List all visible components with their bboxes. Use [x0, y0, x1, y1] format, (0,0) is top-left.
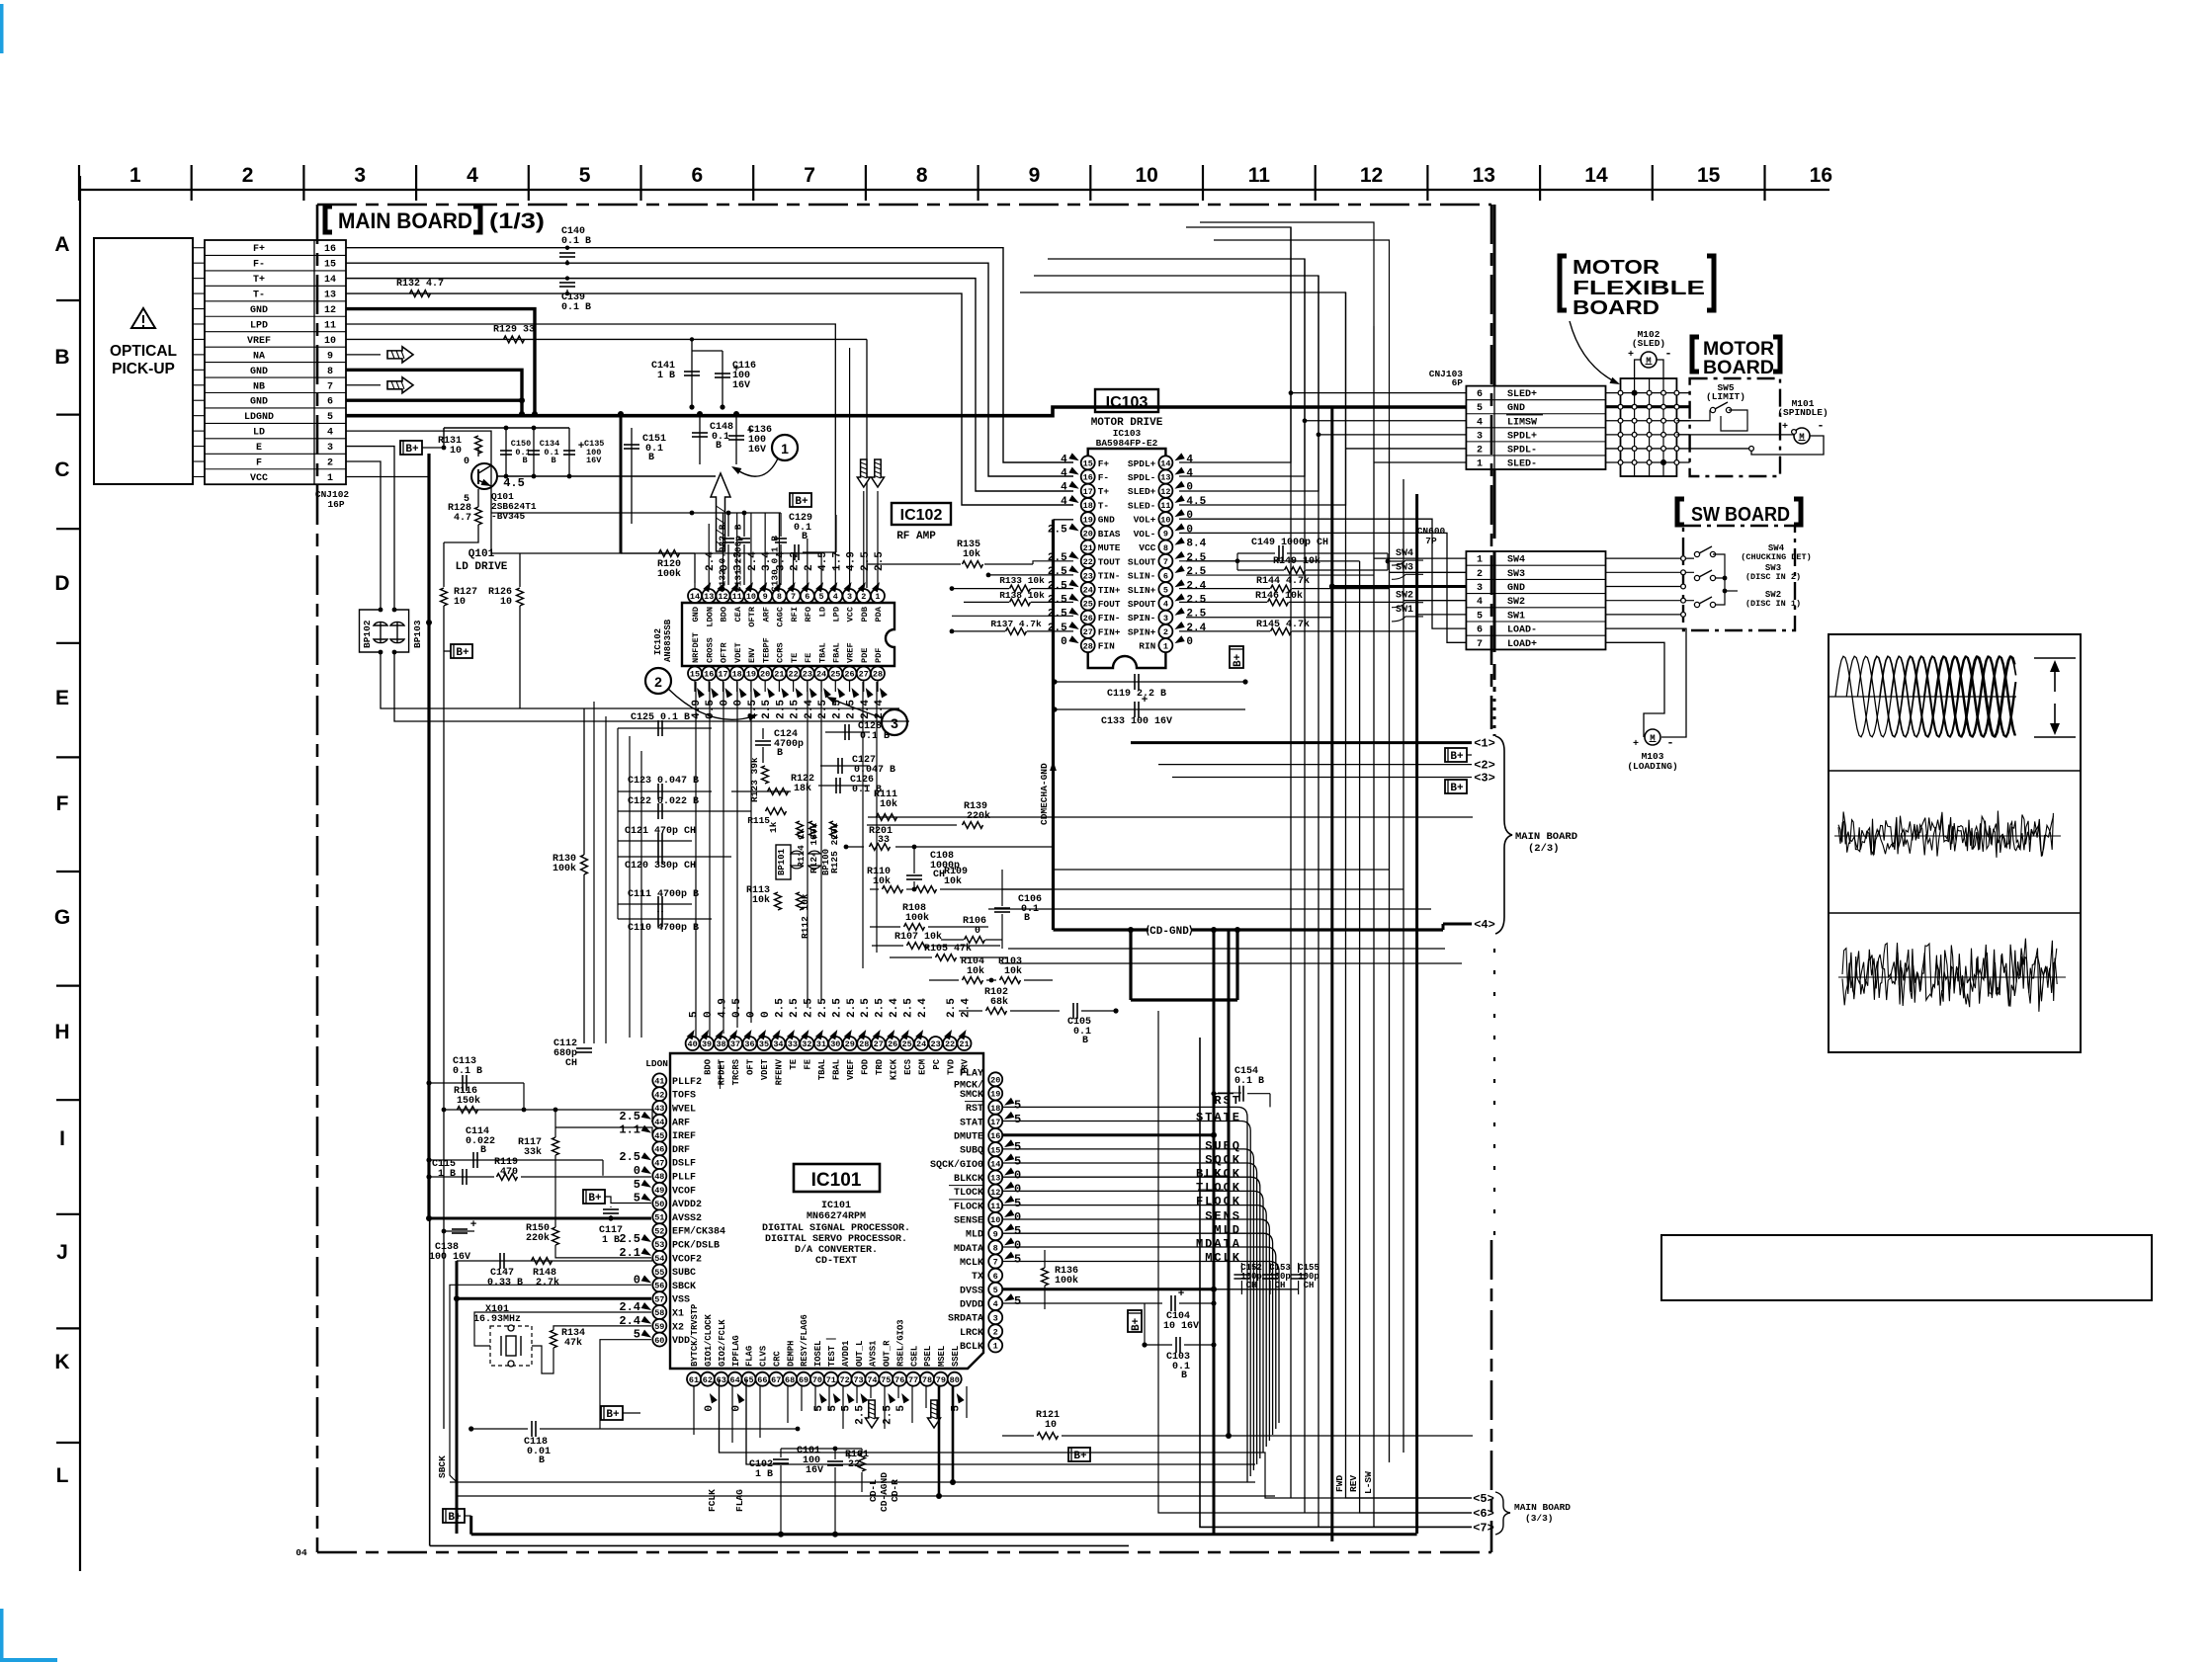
IC101 bottom pins 61..80 [687, 1372, 701, 1386]
svg-text:B: B [648, 453, 654, 463]
svg-text:IOSEL: IOSEL [813, 1341, 823, 1367]
svg-text:65: 65 [743, 1375, 753, 1385]
svg-text:1: 1 [781, 441, 789, 457]
svg-text:FCLK: FCLK [707, 1489, 718, 1512]
svg-text:STATE: STATE [1196, 1111, 1241, 1124]
switch SW2 DISC IN 1 [1694, 602, 1699, 607]
svg-text:10k: 10k [873, 875, 891, 887]
svg-text:IREF: IREF [672, 1131, 696, 1142]
svg-text:2.5: 2.5 [775, 700, 787, 719]
svg-text:A: A [54, 233, 69, 256]
svg-text:20: 20 [760, 670, 770, 680]
svg-text:RIN: RIN [1139, 641, 1155, 652]
svg-text:8: 8 [916, 164, 928, 187]
IC101 right pins 20..1 [988, 1072, 1002, 1086]
svg-text:BLKCK: BLKCK [1196, 1167, 1241, 1181]
svg-text:NRFDET: NRFDET [691, 632, 701, 663]
svg-text:60: 60 [654, 1336, 664, 1346]
svg-text:9: 9 [763, 592, 768, 602]
svg-text:0: 0 [1014, 1168, 1021, 1182]
connector CNJ102 16P [205, 240, 346, 484]
svg-text:IPFLAG: IPFLAG [731, 1335, 741, 1367]
svg-text:5: 5 [819, 592, 824, 602]
wire top rail to IC102 caps [491, 512, 781, 514]
svg-text:BP101: BP101 [777, 848, 787, 875]
svg-text:B+: B+ [456, 647, 469, 659]
bold DVSS wire [1002, 1288, 1214, 1290]
capacitor C125 0.1 B [618, 727, 712, 729]
board edge dashed through CN600 [1493, 551, 1496, 649]
svg-text:GND: GND [1507, 403, 1525, 414]
svg-text:TRD: TRD [875, 1059, 885, 1075]
frame top header line [79, 189, 1829, 191]
noise waveform bottom [1842, 939, 2057, 1012]
svg-text:2: 2 [242, 164, 254, 187]
svg-text:GND: GND [250, 397, 268, 408]
svg-text:10k: 10k [1004, 965, 1022, 977]
resistor R132 4.7 [410, 291, 431, 297]
svg-text:LOAD+: LOAD+ [1507, 639, 1537, 650]
svg-text:58: 58 [654, 1308, 664, 1318]
wire VREF with resistor R129 33 [346, 338, 867, 340]
svg-text:3: 3 [327, 443, 333, 454]
wire F- to IC103 pin16 [346, 263, 1073, 476]
svg-text:R145 4.7k: R145 4.7k [1256, 619, 1310, 630]
horizontal feeds top right [1179, 227, 1291, 462]
bold DMUTE wire pin16 [1002, 1133, 1214, 1136]
wire to ARF pin44 [651, 1110, 652, 1122]
svg-text:04: 04 [296, 1547, 307, 1558]
svg-text:2.5: 2.5 [1048, 524, 1067, 536]
svg-text:LIMSW: LIMSW [1507, 417, 1537, 428]
svg-text:6: 6 [1477, 625, 1483, 636]
REV wire [1360, 1482, 1472, 1513]
svg-text:B+: B+ [588, 1193, 602, 1205]
svg-text:(SLED): (SLED) [1632, 338, 1665, 349]
wire E [346, 447, 394, 610]
svg-text:17: 17 [1083, 487, 1093, 497]
svg-text:12: 12 [1360, 164, 1383, 187]
svg-text:1 B: 1 B [657, 371, 675, 381]
svg-text:F: F [256, 458, 262, 469]
svg-text:0.1 B: 0.1 B [1234, 1076, 1264, 1087]
CD-GND bold net label [1131, 928, 1149, 931]
vertical wires from IC102 top pins up to rails [708, 524, 710, 583]
svg-text:1: 1 [1163, 641, 1168, 651]
svg-text:E: E [55, 687, 69, 709]
svg-text:2.5: 2.5 [1048, 609, 1067, 621]
svg-text:1: 1 [1477, 555, 1483, 566]
svg-text:WVEL: WVEL [672, 1105, 696, 1116]
svg-text:10k: 10k [880, 798, 897, 810]
svg-text:13: 13 [704, 592, 714, 602]
svg-text:8: 8 [993, 1244, 998, 1254]
svg-text:5: 5 [1014, 1099, 1021, 1113]
svg-text:B: B [802, 532, 808, 542]
capacitor C105 0.1 B [1072, 1003, 1074, 1019]
svg-text:F+: F+ [253, 244, 265, 255]
svg-text:D/A CONVERTER.: D/A CONVERTER. [795, 1244, 878, 1256]
capacitor C148 0.1 B [699, 414, 701, 464]
svg-text:2.5: 2.5 [874, 551, 886, 571]
svg-text:C121 470p CH: C121 470p CH [625, 826, 696, 837]
svg-text:2.4: 2.4 [1186, 623, 1206, 634]
svg-text:-: - [1664, 347, 1671, 361]
svg-text:GND: GND [250, 367, 268, 377]
resistor R136 100k [1042, 1268, 1049, 1286]
blue registration mark bottom-left [0, 1609, 4, 1662]
B+ supply label [400, 441, 422, 455]
svg-text:13: 13 [990, 1174, 1000, 1184]
svg-text:GIO1/CLOCK: GIO1/CLOCK [704, 1313, 714, 1367]
svg-text:19: 19 [990, 1090, 1000, 1100]
svg-text:2.4: 2.4 [917, 998, 929, 1018]
svg-text:<2>: <2> [1474, 759, 1495, 773]
svg-text:B+: B+ [606, 1409, 620, 1421]
svg-text:19: 19 [1083, 515, 1093, 525]
svg-text:<5>: <5> [1473, 1492, 1494, 1506]
svg-text:12: 12 [990, 1188, 1000, 1198]
svg-text:2.5: 2.5 [803, 998, 814, 1018]
svg-text:SBCK: SBCK [672, 1282, 696, 1292]
svg-text:21: 21 [774, 670, 784, 680]
bold VSS wire pin57 [457, 1297, 651, 1300]
svg-text:TEST: TEST [827, 1345, 837, 1367]
svg-text:+: + [1633, 739, 1639, 750]
svg-text:(DISC IN 1): (DISC IN 1) [1745, 599, 1801, 609]
svg-text:DVDD: DVDD [960, 1300, 983, 1311]
svg-text:2.5: 2.5 [789, 998, 801, 1018]
IC101 top pins 40..21 [686, 1037, 700, 1050]
CDMECHA-GND bold wire [1052, 520, 1055, 930]
svg-text:OUT_R: OUT_R [883, 1340, 893, 1367]
svg-text:FE: FE [804, 653, 813, 663]
svg-text:100k: 100k [657, 568, 681, 580]
bold vertical from CD-GND down [1129, 930, 1132, 1000]
svg-text:2.5: 2.5 [860, 551, 872, 571]
svg-text:14: 14 [990, 1160, 1000, 1170]
svg-text:SLED-: SLED- [1507, 458, 1537, 469]
svg-text:4.5: 4.5 [817, 551, 829, 571]
wires to CN600 rows from bus [1374, 557, 1466, 559]
svg-text:LDON: LDON [705, 607, 715, 627]
svg-text:45: 45 [654, 1131, 664, 1141]
svg-text:14: 14 [324, 275, 336, 286]
svg-text:0: 0 [703, 1011, 715, 1018]
svg-text:SPIN-: SPIN- [1128, 613, 1156, 623]
svg-text:+: + [1628, 350, 1634, 361]
svg-text:15: 15 [690, 670, 700, 680]
svg-text:SQCK/GIO0: SQCK/GIO0 [930, 1159, 983, 1171]
svg-text:2.5: 2.5 [855, 1405, 867, 1425]
svg-text:5: 5 [327, 412, 333, 423]
svg-text:34: 34 [773, 1039, 783, 1049]
svg-text:<3>: <3> [1474, 772, 1495, 786]
svg-text:150k: 150k [457, 1095, 480, 1107]
svg-text:2.5: 2.5 [882, 1405, 893, 1425]
svg-text:VREF: VREF [846, 1059, 856, 1080]
B+ box 2 [1445, 780, 1467, 793]
svg-text:VDD: VDD [672, 1336, 690, 1347]
svg-text:2.5: 2.5 [1186, 566, 1206, 578]
wire LD [346, 431, 821, 553]
wire FIN- left [952, 615, 1073, 617]
svg-text:46: 46 [654, 1145, 664, 1155]
svg-text:3: 3 [891, 715, 898, 731]
svg-text:10: 10 [746, 592, 756, 602]
svg-text:(2/3): (2/3) [1528, 843, 1560, 855]
blue registration mark top-left [0, 4, 4, 53]
wire LPD [346, 324, 835, 515]
svg-text:FWD: FWD [1334, 1475, 1345, 1492]
svg-text:72: 72 [840, 1375, 850, 1385]
svg-text:2.5: 2.5 [846, 998, 858, 1018]
svg-text:0: 0 [704, 1405, 716, 1412]
wire E to IC102 area [394, 652, 909, 721]
SW board wiring [1606, 557, 1695, 559]
svg-text:22: 22 [789, 670, 799, 680]
svg-text:LD: LD [253, 428, 265, 439]
svg-text:B+: B+ [1233, 653, 1244, 667]
svg-text:DRF: DRF [672, 1145, 690, 1156]
svg-text:MAIN BOARD: MAIN BOARD [1514, 1502, 1571, 1513]
svg-text:OUT_L: OUT_L [855, 1341, 865, 1367]
svg-text:DIGITAL SIGNAL PROCESSOR.: DIGITAL SIGNAL PROCESSOR. [762, 1223, 910, 1234]
svg-text:23: 23 [803, 670, 812, 680]
svg-text:MUTE: MUTE [1098, 542, 1121, 553]
svg-text:CSEL: CSEL [909, 1346, 919, 1367]
svg-text:0: 0 [1061, 636, 1067, 648]
svg-text:L-SW: L-SW [1363, 1471, 1374, 1494]
svg-text:R105 47k: R105 47k [924, 943, 972, 955]
svg-text:10: 10 [324, 336, 336, 347]
svg-text:MAIN BOARD: MAIN BOARD [1515, 831, 1577, 843]
svg-text:F: F [56, 792, 69, 815]
svg-text:BA5984FP-E2: BA5984FP-E2 [1096, 438, 1158, 449]
wire GND pin8 bold [346, 370, 522, 414]
op-amp IC102 AN8835SB RF AMP body [682, 603, 894, 666]
svg-text:1: 1 [129, 164, 141, 187]
svg-text:E: E [256, 443, 262, 454]
svg-text:RFDET: RFDET [718, 1058, 727, 1085]
svg-text:7P: 7P [1425, 536, 1437, 546]
capacitor C123 0.047 B [618, 790, 712, 792]
svg-text:4: 4 [1477, 417, 1483, 428]
svg-text:SPDL-: SPDL- [1128, 472, 1156, 483]
svg-text:B+: B+ [1131, 1317, 1143, 1331]
svg-text:2.4: 2.4 [747, 551, 759, 571]
svg-text:B: B [551, 456, 555, 465]
svg-text:2: 2 [993, 1328, 998, 1338]
svg-text:2.5: 2.5 [761, 700, 773, 719]
svg-text:SPOUT: SPOUT [1128, 599, 1156, 610]
B+ box terminal row [1445, 748, 1467, 762]
svg-text:19: 19 [746, 670, 756, 680]
svg-text:VCC: VCC [846, 607, 856, 622]
svg-text:3: 3 [993, 1313, 998, 1323]
wire NB with block arrow [346, 384, 381, 386]
capacitor C130 0.1 B vertical label [780, 513, 782, 537]
overline RST STATE TLOCK FLOCK [1218, 1092, 1241, 1094]
svg-text:16: 16 [324, 244, 336, 255]
svg-text:<7>: <7> [1473, 1521, 1494, 1535]
svg-text:26: 26 [888, 1039, 897, 1049]
capacitor C103 0.1 B [1145, 1344, 1172, 1346]
svg-text:2.5: 2.5 [946, 998, 958, 1018]
svg-text:53: 53 [654, 1240, 664, 1250]
capacitor C138 100 16V [444, 1230, 474, 1232]
svg-text:1: 1 [993, 1342, 998, 1352]
svg-text:B: B [480, 1145, 486, 1156]
svg-text:28: 28 [859, 1039, 869, 1049]
svg-text:B: B [716, 441, 722, 452]
svg-text:B+: B+ [405, 444, 419, 456]
svg-text:BDO: BDO [703, 1059, 713, 1075]
svg-text:PLAY: PLAY [960, 1068, 983, 1079]
svg-text:VSS: VSS [672, 1295, 690, 1306]
wires to CNJ103 rows from bus [1291, 392, 1466, 394]
svg-text:51: 51 [654, 1213, 664, 1223]
svg-text:SUBQ: SUBQ [1205, 1139, 1241, 1153]
svg-text:2: 2 [1477, 445, 1483, 456]
svg-text:SLIN-: SLIN- [1128, 571, 1156, 582]
svg-text:BOARD: BOARD [1573, 297, 1659, 319]
svg-text:RST: RST [966, 1104, 983, 1115]
svg-text:FOUT: FOUT [1098, 599, 1121, 610]
terminal 3 [1172, 777, 1472, 779]
bold B+ bus vertical [427, 454, 430, 1218]
svg-text:CH: CH [565, 1058, 577, 1069]
svg-text:CRC: CRC [772, 1350, 782, 1367]
bead inductor BP103 [394, 610, 409, 652]
svg-text:0: 0 [760, 1011, 772, 1018]
svg-text:DEMPH: DEMPH [786, 1341, 796, 1367]
svg-text:2.5: 2.5 [817, 700, 829, 719]
svg-text:MOTOR: MOTOR [1573, 257, 1660, 279]
svg-text:SW1: SW1 [1507, 611, 1525, 622]
svg-text:BP100: BP100 [821, 849, 831, 875]
svg-text:VOL-: VOL- [1134, 529, 1156, 540]
svg-text:78: 78 [922, 1375, 932, 1385]
right vertical bus wires [1290, 227, 1292, 1498]
svg-text:64: 64 [730, 1375, 740, 1385]
capacitor C141 1 B [691, 339, 693, 407]
svg-text:5: 5 [1014, 1113, 1021, 1126]
svg-text:12: 12 [324, 305, 336, 316]
inner left vertical wires bottom [429, 1083, 431, 1545]
svg-text:15: 15 [1083, 459, 1093, 469]
annotation circle 2 [645, 668, 671, 694]
svg-text:43: 43 [654, 1104, 664, 1114]
capacitor C112 680p CH [576, 1047, 592, 1049]
svg-text:2.5: 2.5 [903, 998, 915, 1018]
svg-text:4: 4 [327, 428, 333, 439]
svg-text:0: 0 [634, 1164, 640, 1178]
svg-text:IC101: IC101 [821, 1201, 851, 1211]
resistor R128 4.7 [475, 507, 482, 525]
svg-text:21: 21 [1083, 543, 1093, 553]
svg-text:10 16V: 10 16V [1163, 1321, 1199, 1332]
block arrows down near IC102 pins 2-1 [857, 459, 870, 487]
svg-text:D: D [54, 572, 69, 595]
svg-text:LPD: LPD [832, 607, 842, 622]
svg-text:R112 10k: R112 10k [800, 893, 810, 939]
svg-text:MAIN BOARD: MAIN BOARD [338, 208, 472, 233]
capacitor C134 0.1 B [533, 428, 535, 476]
svg-text:2.4: 2.4 [705, 551, 717, 571]
svg-text:12: 12 [718, 592, 727, 602]
svg-text:DSLF: DSLF [672, 1159, 696, 1170]
svg-text:BIAS: BIAS [1098, 529, 1121, 540]
svg-text:57: 57 [654, 1294, 664, 1304]
svg-text:10k: 10k [752, 894, 770, 906]
block arrow up near IC102 pin 8 [711, 473, 730, 551]
bottom pin drop wires [693, 1386, 695, 1435]
svg-text:68k: 68k [990, 996, 1008, 1008]
bold wires bottom center [856, 1386, 858, 1535]
svg-text:RESY/FLAG6: RESY/FLAG6 [800, 1314, 809, 1367]
svg-text:1.7: 1.7 [831, 551, 843, 571]
terminal 4 [1443, 923, 1472, 926]
svg-text:LRCK: LRCK [960, 1328, 983, 1339]
svg-text:PICK-UP: PICK-UP [112, 361, 175, 377]
svg-text:7: 7 [1477, 639, 1483, 650]
svg-text:2.4: 2.4 [1186, 580, 1206, 592]
svg-text:2.5: 2.5 [1048, 623, 1067, 634]
svg-text:2.5: 2.5 [1186, 595, 1206, 607]
svg-text:PDB: PDB [860, 607, 870, 622]
IC103 boxed label [1095, 389, 1158, 412]
svg-text:MCLK: MCLK [1205, 1251, 1241, 1265]
svg-text:C125 0.1 B: C125 0.1 B [631, 712, 690, 723]
svg-text:3: 3 [847, 592, 852, 602]
svg-text:12: 12 [1160, 487, 1170, 497]
motor M103 LOADING [1645, 729, 1660, 745]
svg-text:5: 5 [689, 1011, 701, 1018]
svg-text:9: 9 [993, 1229, 998, 1239]
MAIN BOARD dashed border [317, 204, 1491, 207]
B+ label bottom right [1068, 1448, 1090, 1461]
svg-text:C131 2700p B: C131 2700p B [733, 524, 744, 592]
svg-text:10: 10 [500, 597, 512, 608]
svg-text:75: 75 [881, 1375, 891, 1385]
svg-text:BLKCK: BLKCK [954, 1174, 983, 1185]
svg-text:SSEL: SSEL [951, 1346, 961, 1367]
svg-text:SPDL-: SPDL- [1507, 445, 1537, 456]
IC102 bottom pins 15..28 [688, 667, 702, 681]
wires IC103 right pins to bus [1186, 560, 1360, 562]
svg-text:2.5: 2.5 [1048, 552, 1067, 564]
resistor R130 100k [581, 855, 588, 874]
svg-text:7: 7 [1163, 557, 1168, 567]
capacitor C122 0.022 B [618, 810, 751, 812]
bead BP101 [776, 845, 791, 879]
svg-text:31: 31 [816, 1039, 826, 1049]
horizontal mid-right long wires [1053, 869, 1390, 871]
svg-text:5: 5 [1014, 1253, 1021, 1267]
svg-text:4: 4 [1477, 597, 1483, 608]
wire T+ to IC103 pin17 [346, 279, 1073, 491]
capacitor C117 1 B [603, 1208, 619, 1210]
wire collector rail 4.5V [444, 427, 569, 429]
B+ label near IC102 [790, 493, 811, 507]
capacitor C126 0.1 B [818, 785, 870, 787]
svg-text:1k: 1k [768, 821, 779, 833]
svg-text:C111 4700p B: C111 4700p B [628, 889, 699, 900]
svg-text:C122 0.022 B: C122 0.022 B [628, 796, 699, 807]
svg-text:35: 35 [759, 1039, 769, 1049]
IC103 right pins 14..1 [1158, 456, 1172, 469]
